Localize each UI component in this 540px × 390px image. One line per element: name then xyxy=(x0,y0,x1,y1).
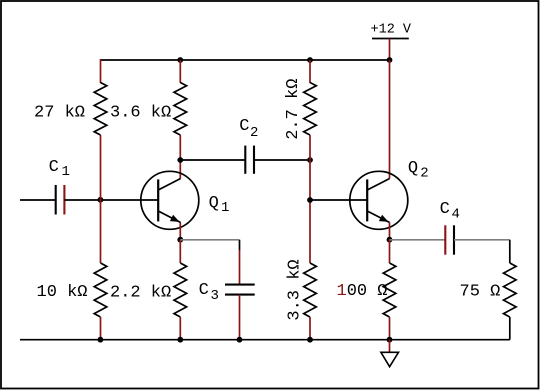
wire col1 bottom stub xyxy=(100,317,102,340)
svg-text:2.7 kΩ: 2.7 kΩ xyxy=(284,79,303,140)
svg-text:C: C xyxy=(440,200,450,219)
wire top rail xyxy=(101,59,390,61)
node Q1 emitter junction xyxy=(177,237,183,243)
wire col1 middle xyxy=(100,135,102,263)
node col5 ground rail xyxy=(387,337,393,343)
svg-text:2: 2 xyxy=(420,165,428,181)
svg-text:10 kΩ: 10 kΩ xyxy=(37,283,88,302)
node col1 ground rail xyxy=(98,337,104,343)
svg-text:75 Ω: 75 Ω xyxy=(460,283,501,302)
capacitor C2 xyxy=(245,146,254,174)
capacitor C3 xyxy=(225,285,255,295)
node C3 ground rail xyxy=(237,337,243,343)
svg-text:3: 3 xyxy=(211,288,219,304)
node col4 base junction xyxy=(307,197,313,203)
svg-text:2.2 kΩ: 2.2 kΩ xyxy=(110,284,171,303)
wire C3 bottom xyxy=(239,295,241,340)
svg-text:+12 V: +12 V xyxy=(371,23,412,38)
node Q2 emitter junction xyxy=(387,237,393,243)
wire col2 emitter to 2.2k xyxy=(179,240,181,263)
resistor R 3.6k zigzag xyxy=(174,83,187,136)
wire bottom ground rail xyxy=(20,339,510,341)
wire col4 bottom stub xyxy=(309,317,311,340)
svg-text:1: 1 xyxy=(221,200,229,216)
node C2 right col4 xyxy=(307,157,313,163)
wire col6 bottom stub xyxy=(509,317,511,340)
node divider/base junction xyxy=(98,197,104,203)
svg-text:2: 2 xyxy=(250,125,258,141)
resistor R 10k zigzag xyxy=(94,263,107,317)
wire Q2 emitter xyxy=(389,223,391,240)
svg-text:4: 4 xyxy=(452,207,460,223)
wire col5 bottom stub xyxy=(389,317,391,340)
node col4 ground rail xyxy=(307,337,313,343)
wire Q2 base lead xyxy=(310,199,367,201)
wire C2 right xyxy=(254,159,310,161)
wire col4 middle xyxy=(309,135,311,263)
resistor R 2.7k zigzag xyxy=(304,83,317,136)
svg-text:C: C xyxy=(49,158,59,177)
svg-text:3.6 kΩ: 3.6 kΩ xyxy=(110,104,171,123)
wire col2 collector xyxy=(179,135,181,179)
wire ground stub xyxy=(389,340,391,353)
transistor Q2 xyxy=(350,171,408,229)
node col2 ground rail xyxy=(177,337,183,343)
resistor R 100 zigzag xyxy=(383,263,396,317)
wire col2 top stub xyxy=(179,60,181,83)
svg-text:100 Ω: 100 Ω xyxy=(337,282,388,301)
transistor Q1 xyxy=(141,171,199,229)
wire emitter2 to C4 (gray) xyxy=(390,239,446,241)
svg-text:3.3 kΩ: 3.3 kΩ xyxy=(285,259,304,320)
svg-text:Q: Q xyxy=(408,159,418,178)
svg-text:1: 1 xyxy=(62,164,70,180)
wire col4 top stub xyxy=(309,60,311,83)
svg-text:27 kΩ: 27 kΩ xyxy=(34,104,85,123)
svg-text:C: C xyxy=(239,117,249,136)
svg-text:Q: Q xyxy=(209,194,219,213)
wire Q1 emitter xyxy=(179,223,181,240)
wire col5 emitter to 100 xyxy=(389,240,391,263)
node collector Q1 / C2 left xyxy=(177,157,183,163)
wire col1 top stub xyxy=(100,59,102,83)
ground symbol xyxy=(381,352,399,366)
wire emitter1 to C3 (gray) xyxy=(180,239,239,241)
capacitor C4 xyxy=(445,225,454,254)
resistor R 2.2k zigzag xyxy=(174,263,187,317)
wire C1 to Q1 base xyxy=(64,199,158,201)
power rail bar xyxy=(372,38,409,40)
wire C2 left xyxy=(180,159,245,161)
resistor R 3.3k zigzag xyxy=(304,263,317,317)
svg-text:C: C xyxy=(199,281,209,300)
wire col2 bottom stub xyxy=(179,317,181,340)
wire C4 right (gray) xyxy=(454,239,510,241)
node col4 top rail xyxy=(307,57,313,63)
capacitor C1 xyxy=(56,185,65,215)
wire supply drop xyxy=(389,39,391,61)
wire C3 drop xyxy=(239,240,241,285)
wire input stub xyxy=(20,199,56,201)
node col2 top rail xyxy=(177,57,183,63)
resistor R 27k zigzag xyxy=(94,83,107,136)
resistor R 75 zigzag xyxy=(504,263,517,317)
node supply top rail xyxy=(387,57,393,63)
wire col5 collector xyxy=(389,60,391,179)
wire col6 top stub xyxy=(509,240,511,263)
